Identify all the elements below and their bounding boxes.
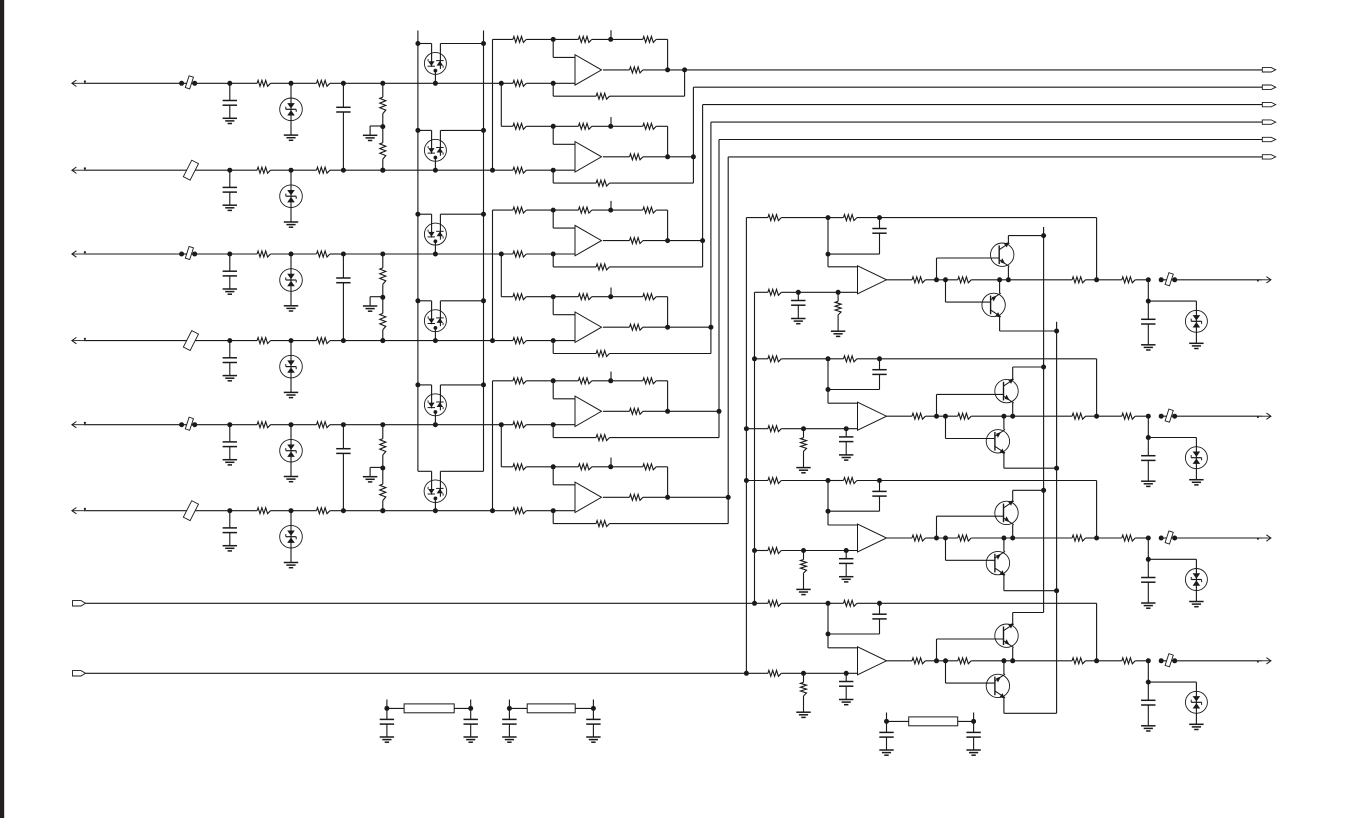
node rail R bar5 — [481, 382, 486, 387]
node row2 pair cap — [341, 168, 346, 173]
node row5 vseg — [499, 422, 504, 427]
capacitor C ch2 gnd — [839, 436, 853, 438]
wire ch1 out2 — [1000, 279, 1073, 281]
wire ch2 plus chain — [746, 428, 768, 430]
wire op4 fb corner drop — [667, 297, 669, 328]
node row6 tvs — [289, 508, 294, 513]
wire row6 tvs gnd lead — [290, 548, 292, 563]
node row1 pair cap — [341, 81, 346, 86]
wire ch4 Q2 base — [945, 661, 947, 683]
node ch3 E2 — [1010, 536, 1015, 541]
node RB3 L — [884, 719, 889, 724]
resistor R op3 fb — [596, 264, 609, 270]
wire divider3 top lead — [382, 425, 384, 439]
resistor R op3 out — [630, 238, 643, 244]
wire row3 tvs lead — [290, 254, 292, 269]
ground ch2 cap — [839, 454, 853, 456]
wire row4 seg6 — [343, 340, 513, 342]
resistor R4a — [257, 338, 270, 344]
TVS diode D4 — [280, 355, 303, 378]
wire op4 out ext — [668, 326, 711, 328]
wire output net 2 — [692, 87, 694, 157]
node row6 divider — [380, 508, 385, 513]
node ch1 A2 — [826, 252, 831, 257]
node ch4 A — [826, 601, 831, 606]
wire op3 top chain — [493, 209, 513, 211]
wire row6 seg4 — [291, 510, 317, 512]
capacitor C pair2 plates — [336, 277, 350, 279]
ground row6 tvs — [284, 562, 298, 564]
resistor R3a — [257, 251, 270, 257]
node row6 vseg — [490, 508, 495, 513]
node ch2 bead L — [1159, 414, 1164, 419]
resistor R ch2 fb — [844, 356, 857, 362]
wire row2 cap to gnd — [229, 192, 231, 205]
node op4 out B — [708, 325, 713, 330]
wire row5 cap lead — [229, 425, 231, 442]
node row1 vseg — [499, 81, 504, 86]
resistor Rdiv2a — [380, 268, 386, 284]
wire op5 minus input — [552, 381, 554, 399]
ground RB1 R — [464, 736, 478, 738]
wire ch4 plus chain — [746, 672, 768, 674]
resistor R op2 t1 — [578, 123, 591, 129]
capacitor C pair3 plates — [336, 448, 350, 450]
capacitor C ch3 fb — [872, 490, 886, 492]
net stub op4 — [610, 288, 612, 297]
resistor R op3 in — [513, 207, 526, 213]
wire op3 output — [603, 240, 630, 242]
node rail L bar4 — [415, 298, 420, 303]
output connector J2 — [1262, 85, 1275, 89]
resistor R ch3 o3 — [1072, 535, 1085, 541]
node op6 out A — [665, 495, 670, 500]
wire ch4 minus input — [827, 603, 829, 634]
wire divider3 gnd tap — [370, 466, 383, 468]
capacitor C3a — [223, 270, 237, 272]
input arrow row 4 — [72, 340, 85, 342]
TVS diode Dch3 — [1185, 569, 1207, 591]
op-amp U2 — [575, 142, 602, 172]
resistor R op6 t2 — [643, 464, 656, 470]
wire ch4 tvs branch — [1148, 681, 1196, 683]
node ch2 bead R — [1172, 414, 1177, 419]
capacitor C1a — [223, 100, 237, 102]
resistor R ch1 plus — [768, 289, 781, 295]
bus +V vertical — [1043, 227, 1045, 613]
node rail R bar2 — [481, 128, 486, 133]
ground row3 tvs — [284, 305, 298, 307]
wire op1 feedback — [684, 70, 686, 96]
op-amp U4 — [575, 312, 602, 342]
wire row5 cap to gnd — [229, 447, 231, 460]
node op2 stub — [608, 124, 613, 129]
transistor Q2 — [982, 293, 1005, 317]
node op2 out A — [665, 154, 670, 159]
wire op2 feedback — [692, 157, 694, 183]
wire RB1 cap L — [386, 708, 388, 719]
node ch2 P1 — [801, 426, 806, 431]
wire row5 seg6 — [343, 424, 513, 426]
ground row1 cap — [223, 117, 237, 119]
node ch2 P2 — [844, 426, 849, 431]
wire ch1 Q1 emitter — [1007, 267, 1009, 280]
wire row6 seg5 — [330, 510, 344, 512]
wire row3 seg2 — [230, 253, 257, 255]
net stub op2 — [610, 117, 612, 126]
wire row2 seg5 — [330, 169, 344, 171]
capacitor C ch1 out — [1141, 318, 1155, 320]
wire ch4 Q2 emitter — [1003, 661, 1005, 674]
wire ch1 G drop — [1147, 280, 1149, 301]
wire ch2 Q1 base — [936, 394, 938, 416]
wire row1 seg4 — [291, 82, 317, 84]
ferrite bead FB2 — [1165, 409, 1173, 422]
wire row4 cap lead — [229, 341, 231, 358]
capacitor C pair2 — [342, 254, 344, 278]
ground RB2 L — [502, 736, 516, 738]
transistor Q3 — [995, 379, 1018, 403]
wire row6 seg7 — [526, 510, 575, 512]
wire ch3 Q2 collector — [1003, 575, 1005, 591]
TVS diode D5 — [280, 439, 303, 462]
wire ch3 gnd res leads — [803, 551, 805, 560]
resistor R ch3 gnd — [801, 560, 807, 574]
resistor R ch3 in — [768, 478, 781, 484]
resistor R op2 fb — [596, 180, 609, 186]
ground row4 cap — [223, 375, 237, 377]
wire output net 4 — [710, 122, 712, 327]
resistor Rdiv3b — [380, 484, 386, 500]
wire row6 seg2 — [230, 510, 257, 512]
node ch4 A2 — [826, 632, 831, 637]
wire row1 to C node — [195, 82, 230, 84]
rail right vertical — [483, 31, 485, 472]
resistor R ch2 o2 — [958, 413, 971, 419]
resistor R ch2 o1 — [912, 413, 925, 419]
node row2 zener tap — [433, 168, 438, 173]
node ch2 A — [826, 356, 831, 361]
resistor R2c — [513, 167, 526, 173]
wire divider2 lower lead — [382, 297, 384, 313]
node ch2 E2 — [1010, 414, 1015, 419]
capacitor C ch3 out — [1141, 577, 1155, 579]
resistor R ch3 o4 — [1122, 535, 1135, 541]
wire op2 output — [603, 156, 630, 158]
wire ch3 out2 — [1004, 537, 1072, 539]
node ch3 A — [826, 478, 831, 483]
wire ch1 fb cap leads — [879, 218, 881, 229]
wire row5 seg4 — [291, 424, 317, 426]
node RB2 R — [591, 706, 596, 711]
wire op4 top chain — [501, 296, 513, 298]
node row5 cap — [227, 422, 232, 427]
resistor R op4 in — [513, 294, 526, 300]
wire divider1 mid lead — [382, 114, 384, 127]
node rail L bar3 — [415, 212, 420, 217]
input connector J7 — [73, 601, 86, 606]
wire ch4 inv chain — [755, 602, 768, 604]
wire ch1 G cap — [1147, 301, 1149, 319]
wire op1 minus input — [552, 39, 554, 57]
TVS diode Dch2 — [1185, 447, 1207, 469]
resistor R op6 in — [513, 464, 526, 470]
TVS diode D1 — [280, 98, 303, 121]
wire output net 3 — [702, 105, 704, 241]
node row2 vseg — [490, 168, 495, 173]
wire op5 top chain — [493, 380, 513, 382]
capacitor C6a — [223, 527, 237, 529]
resistor R ch1 fb — [844, 215, 857, 221]
dual zener DZ5 — [418, 385, 484, 425]
wire ch4 Q2 collector — [1003, 698, 1005, 714]
TVS diode Dch1 — [1185, 310, 1207, 332]
wire op4 output — [603, 326, 630, 328]
resistor R op1 t1 — [578, 36, 591, 42]
ground row5 tvs — [284, 476, 298, 478]
wire row5 to C node — [195, 424, 230, 426]
wire row6 input run — [84, 510, 230, 512]
wire op1 out ext — [668, 69, 685, 71]
wire op4 feedback — [710, 327, 712, 353]
resistor R ch4 gnd — [801, 682, 807, 696]
net stub op1 — [610, 30, 612, 39]
bus -V vertical — [1056, 322, 1058, 714]
node ch4 E1 — [1001, 658, 1006, 663]
wire ch4 Q1 collector — [1012, 613, 1014, 624]
wire op1 output — [603, 69, 630, 71]
node ch4 E2 — [1010, 658, 1015, 663]
wire row1 input run — [84, 82, 182, 84]
pin speck row 4 — [84, 338, 86, 340]
fuse F5 — [185, 417, 193, 430]
ground ch4 out cap — [1141, 725, 1155, 727]
capacitor RB2 R — [586, 718, 600, 720]
wire op6 feedback — [727, 497, 729, 523]
wire op2 top chain — [501, 125, 513, 127]
node ch2 Q2 coll — [1054, 466, 1059, 471]
wire op6 top chain — [501, 466, 513, 468]
wire ch1 fb long — [880, 217, 1097, 219]
node divider3 bottom — [380, 508, 385, 513]
node op5 minus top — [551, 378, 556, 383]
resistor R ch3 o2 — [958, 535, 971, 541]
output connector J4 — [1262, 120, 1275, 124]
node row5 op input — [551, 422, 556, 427]
op-amp U10 — [858, 647, 887, 675]
node ch1 N1 — [934, 277, 939, 282]
node ch2 Q1 coll — [1041, 365, 1046, 370]
wire op2 out ext — [668, 156, 694, 158]
wire output net 5 — [718, 140, 720, 412]
wire ch2 Q1 collector — [1012, 367, 1014, 379]
resistor R ch1 o2 — [958, 277, 971, 283]
wire row3 cap lead — [229, 254, 231, 271]
node ch1 N2 — [943, 277, 948, 282]
resistor R op6 t1 — [578, 464, 591, 470]
node op4 minus top — [551, 294, 556, 299]
input arrow row 6 — [72, 510, 85, 512]
wire ch1 Q2 emitter — [999, 280, 1001, 293]
resistor Rdiv3a — [380, 439, 386, 455]
node ch3 Q1 coll — [1041, 488, 1046, 493]
node ch4 G — [1146, 658, 1151, 663]
wire RB2 cap R — [592, 708, 594, 719]
node ch2 A2 — [826, 387, 831, 392]
wire op2 ref vertical — [500, 83, 502, 126]
capacitor RB3 R — [966, 731, 980, 733]
node row3 vseg — [499, 252, 504, 257]
node row3 op input — [551, 252, 556, 257]
wire ch1 tail1 — [1097, 279, 1122, 281]
node ch4 bead R — [1172, 658, 1177, 663]
wire row3 seg3 — [271, 253, 292, 255]
node row6 zener tap — [433, 508, 438, 513]
wire row6 cap lead — [229, 511, 231, 528]
resistor R1c — [513, 80, 526, 86]
ground row3 cap — [223, 288, 237, 290]
wire ch2 gnd cap lead — [845, 429, 847, 437]
wire op3 ref vertical — [492, 210, 494, 341]
capacitor C5a — [223, 441, 237, 443]
wire op3 feedback — [702, 241, 704, 267]
node row4 pair cap — [341, 338, 346, 343]
net stub op6 — [610, 458, 612, 467]
wire ch3 fb cap leads — [879, 481, 881, 492]
node row3 zener tap — [433, 252, 438, 257]
ferrite bead FB3 — [1165, 531, 1173, 544]
ground row5 cap — [223, 459, 237, 461]
node row2 op input — [551, 168, 556, 173]
wire ch4 tail2 — [1161, 660, 1262, 662]
node RB1 R — [468, 706, 473, 711]
node row3 fuse left — [179, 252, 184, 257]
node row3 cap — [227, 252, 232, 257]
input arrow row 3 — [72, 253, 85, 255]
wire ch4 gnd res leads — [803, 673, 805, 682]
node ch3 G2 — [1146, 557, 1151, 562]
wire row4 tvs gnd lead — [290, 378, 292, 393]
resistor R ch1 o1 — [912, 277, 925, 283]
rail left vertical — [417, 31, 419, 472]
transistor Q7 — [995, 623, 1018, 647]
wire ch4 fb cap leads — [879, 603, 881, 614]
wire row5 seg5 — [330, 424, 344, 426]
capacitor C ch1 gnd — [791, 300, 805, 302]
resistor R ch2 in — [768, 356, 781, 362]
resistor R6c — [513, 508, 526, 514]
net stub op5 — [610, 372, 612, 381]
node ch4 N2 — [943, 658, 948, 663]
node ch4 N1 — [934, 658, 939, 663]
wire op1 top chain — [493, 38, 513, 40]
ground ch1 tvs — [1189, 342, 1203, 344]
capacitor C ch4 out — [1141, 699, 1155, 701]
resistor R op5 in — [513, 378, 526, 384]
wire ch3 minus input — [827, 481, 829, 512]
fuse F1 — [185, 76, 193, 89]
wire row2 seg6 — [343, 169, 513, 171]
wire ch1 gnd cap lead — [797, 292, 799, 300]
ground ch2 res — [796, 467, 810, 469]
resistor R op5 fb — [596, 435, 609, 441]
op-amp U8 — [858, 402, 887, 430]
wire row5 fuse span — [182, 424, 195, 426]
wire row4 seg4 — [291, 340, 317, 342]
resistor R op6 fb — [596, 521, 609, 527]
wire divider1 lower lead — [382, 127, 384, 143]
ground row4 tvs — [284, 391, 298, 393]
node ch3 E1 — [1001, 536, 1006, 541]
resistor R3b — [317, 251, 330, 257]
wire ch2 gnd res leads — [803, 429, 805, 438]
node row5 fuse left — [179, 422, 184, 427]
resistor R ch4 o2 — [958, 658, 971, 664]
wire RB3 cap L — [886, 721, 888, 732]
op-amp U1 — [575, 55, 602, 85]
resistor R1a — [257, 80, 270, 86]
node row7 bus — [752, 601, 757, 606]
capacitor C4a — [223, 357, 237, 359]
pin speck ch4 — [1257, 661, 1259, 663]
wire op4 ref vertical — [500, 254, 502, 297]
resistor R ch1 in — [768, 215, 781, 221]
node ch2 E1 — [1001, 414, 1006, 419]
node RB1 L — [384, 706, 389, 711]
node row5 divider — [380, 422, 385, 427]
wire ch4 tail1 — [1097, 660, 1122, 662]
node ch3 fb bus — [744, 478, 749, 483]
pin speck row 5 — [84, 422, 86, 424]
wire row7 run — [86, 602, 755, 604]
node ch3 plus bus — [752, 548, 757, 553]
node row4 op input — [551, 338, 556, 343]
wire row1 seg3 — [271, 82, 292, 84]
resistor R ch4 o4 — [1122, 658, 1135, 664]
bus A vertical — [745, 218, 747, 674]
node ch4 P1 — [801, 671, 806, 676]
wire ch2 Q1 emitter — [1012, 403, 1014, 416]
wire row6 seg6 — [343, 510, 513, 512]
input connector J8 — [73, 671, 86, 676]
resistor R op2 t2 — [643, 123, 656, 129]
wire divider3 lower lead — [382, 468, 384, 484]
capacitor C pair1 plates — [336, 106, 350, 108]
output connector J6 — [1262, 155, 1275, 159]
resistor RB2 — [527, 704, 575, 713]
ground ch2 out cap — [1141, 480, 1155, 482]
wire ch4 out2 — [1004, 660, 1072, 662]
wire ch4 gnd cap lead — [845, 673, 847, 681]
node ch1 P2 — [836, 290, 841, 295]
node rail L bar2 — [415, 128, 420, 133]
node ch2 G — [1146, 414, 1151, 419]
capacitor C ch2 out — [1141, 455, 1155, 457]
resistor R op4 t2 — [643, 294, 656, 300]
border strip — [0, 0, 4, 818]
resistor R6b — [317, 508, 330, 514]
wire ch4 G cap — [1147, 682, 1149, 700]
wire ch1 out1 — [887, 279, 913, 281]
node row3 pair cap — [341, 252, 346, 257]
wire op6 output — [603, 496, 630, 498]
net stub RB1 R — [470, 700, 472, 709]
node row8 bus — [744, 671, 749, 676]
node op3 minus top — [551, 208, 556, 213]
node ch2 plus bus — [744, 426, 749, 431]
wire ch2 G drop — [1147, 416, 1149, 437]
node row4 vseg — [490, 338, 495, 343]
